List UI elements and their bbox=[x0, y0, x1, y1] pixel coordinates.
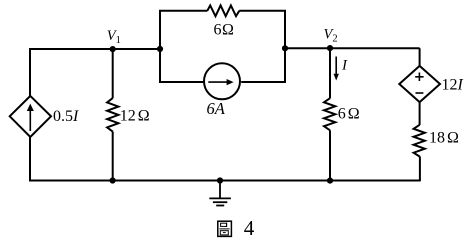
wire: loop right vertical bbox=[284, 11, 286, 82]
wire: main top-right horizontal (node V2 run) bbox=[284, 47, 419, 49]
node V1 junction dot bbox=[110, 46, 116, 52]
node: loop left junction dot bbox=[157, 46, 163, 52]
svg-text:18Ω: 18Ω bbox=[429, 130, 459, 147]
resistor 18ohm bbox=[414, 125, 425, 157]
wire: V2 branch upper lead bbox=[329, 48, 331, 98]
node V2 junction dot bbox=[327, 45, 333, 51]
svg-text:6A: 6A bbox=[207, 99, 226, 118]
resistor 6ohm right bbox=[324, 98, 335, 130]
svg-text:6Ω: 6Ω bbox=[214, 21, 235, 38]
wire: V1 branch lower lead bbox=[112, 132, 114, 182]
wire: loop top-right segment bbox=[239, 10, 286, 12]
wire: V1 branch upper lead bbox=[112, 49, 114, 98]
wire: right vertical upper (to dep. source) bbox=[419, 48, 421, 66]
wire: left vertical upper (source to top wire) bbox=[29, 48, 31, 97]
node: ground junction dot bbox=[217, 177, 223, 183]
wire: left vertical lower (source to bottom wire) bbox=[29, 137, 31, 182]
wire: loop top-left segment bbox=[159, 10, 207, 12]
wire: V2 branch lower lead bbox=[329, 130, 331, 181]
svg-text:4: 4 bbox=[244, 216, 255, 240]
wire: bottom rail bbox=[29, 180, 421, 182]
svg-text:V2: V2 bbox=[324, 27, 338, 45]
current source 6A (circle) bbox=[204, 63, 240, 99]
svg-text:V1: V1 bbox=[107, 28, 121, 46]
node: loop right junction dot bbox=[282, 45, 288, 51]
current arrow I bbox=[334, 57, 339, 81]
caption: character tu (figure) drawn bbox=[218, 221, 232, 236]
dependent current source 0.5I (diamond) bbox=[10, 96, 51, 137]
resistor R 12ohm bbox=[107, 98, 118, 132]
ground symbol bbox=[209, 181, 231, 206]
dependent voltage source 12I (diamond) bbox=[399, 66, 440, 102]
svg-text:0.5I: 0.5I bbox=[53, 108, 79, 125]
wire: right vertical middle (dep. source to 18ohm) bbox=[419, 102, 421, 125]
wire: loop left vertical bbox=[159, 11, 161, 82]
svg-text:6Ω: 6Ω bbox=[338, 106, 360, 123]
wire: loop bottom-left segment bbox=[159, 81, 204, 83]
resistor 6ohm top bbox=[207, 5, 239, 16]
svg-text:12I: 12I bbox=[442, 77, 464, 94]
svg-text:I: I bbox=[341, 58, 348, 74]
wire: loop bottom-right segment bbox=[241, 81, 286, 83]
svg-text:12Ω: 12Ω bbox=[120, 107, 150, 124]
wire: right vertical lower (18ohm to bottom) bbox=[419, 157, 421, 182]
node: 6ohm bottom junction dot bbox=[327, 178, 333, 184]
node: 12ohm bottom junction dot bbox=[110, 177, 116, 183]
wire: main top-left horizontal (node V1 run) bbox=[29, 48, 161, 50]
